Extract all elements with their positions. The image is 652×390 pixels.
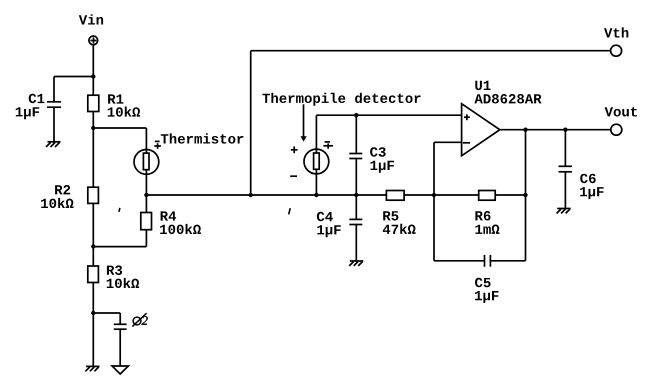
wire op-amp output [500, 129, 611, 131]
wire to phase-2 capacitor [93, 313, 120, 324]
resistor R3 [88, 266, 99, 283]
resistor R4 [93, 195, 151, 247]
label R1 value [108, 94, 140, 116]
resistor R6 [479, 191, 496, 201]
node junction dot thermopile bottom [314, 193, 318, 197]
node junction dot R1 bottom [91, 126, 95, 130]
thermistor RT1 [134, 149, 159, 176]
capacitor C5 loop [434, 195, 526, 267]
label R3 value [107, 265, 139, 288]
capacitor C4 [349, 195, 362, 261]
wire thermopile top to op-amp [316, 114, 461, 116]
wire junction to thermistor [93, 128, 146, 150]
node junction dot inverting input [432, 193, 436, 197]
terminal Vin plus circle [89, 36, 98, 45]
resistor R5 [386, 191, 404, 201]
wire thermistor to bus [145, 176, 147, 196]
node junction dot feedback tap [523, 128, 527, 132]
wire feedback down [525, 130, 527, 195]
node junction dot R2/R4 [91, 244, 95, 248]
label R4 value [160, 211, 201, 234]
label thermistor polarity mark [154, 141, 161, 148]
arrow to thermopile [301, 104, 307, 141]
thermopile detector TP1 [304, 115, 329, 195]
capacitor C6 [559, 130, 572, 209]
node junction dot C6 tap [563, 128, 567, 132]
node junction dot R6 right bus [523, 193, 527, 197]
node Vth label [604, 27, 628, 37]
label C3 value [370, 147, 394, 173]
label phase 2 [132, 313, 147, 326]
label C4 value [317, 212, 341, 237]
node junction dot C3/C4 bus [354, 193, 358, 197]
label C6 value [580, 174, 604, 199]
node junction dot R3 bottom [91, 311, 95, 315]
label Thermistor [161, 133, 244, 143]
wire Vth riser [251, 51, 610, 195]
wire Vin to C1/R1 junction [92, 45, 94, 95]
label R6 value [475, 211, 499, 234]
label R2 value [41, 185, 73, 208]
node Vout label [605, 107, 637, 116]
label thermopile plus [291, 146, 298, 153]
label thermopile polarity mark [323, 142, 333, 149]
node junction dot thermistor bottom [144, 193, 148, 197]
capacitor phase 2 [114, 324, 127, 366]
op-amp U1 [462, 104, 500, 156]
ground under C1 [46, 142, 61, 147]
node junction dot C1/R1 [91, 74, 95, 78]
wire inverting input [434, 142, 462, 195]
node Vin label [79, 14, 103, 24]
resistor R2 [88, 187, 99, 203]
label thermopile minus [290, 175, 297, 177]
ground triangle under phase-2 capacitor [112, 366, 128, 374]
wire R1 to R2 [92, 112, 94, 188]
stray tick mark left [119, 208, 120, 212]
resistor R1 [88, 95, 99, 111]
terminal Vth [611, 45, 622, 56]
wire R2 to R3 [92, 203, 94, 266]
capacitor C1 [47, 77, 61, 142]
wire to C1 [54, 76, 93, 78]
wire R3 to ground [92, 283, 94, 367]
node junction dot Vth tap [249, 193, 253, 197]
label C5 value [475, 278, 499, 303]
ground bottom left [85, 366, 99, 371]
label U1 part number [474, 81, 541, 104]
ground under C6 [557, 209, 571, 214]
label C1 value [16, 94, 45, 120]
stray tick mark middle [289, 208, 291, 214]
node junction dot C3 top [354, 113, 358, 117]
bus wire segments [146, 194, 525, 196]
label R5 value [383, 211, 416, 234]
ground under C4 [349, 261, 363, 266]
terminal Vout [611, 124, 622, 135]
capacitor C3 [349, 115, 362, 195]
label Thermopile detector [262, 93, 420, 106]
